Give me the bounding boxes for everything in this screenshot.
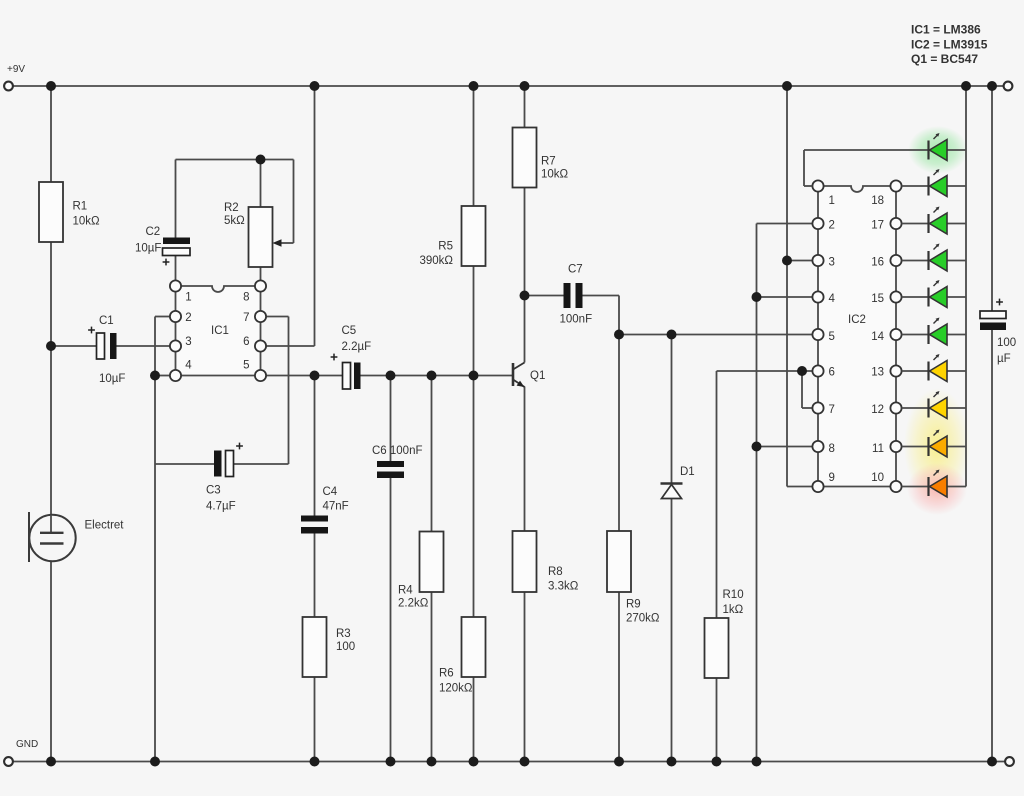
svg-text:C1: C1 bbox=[99, 315, 114, 327]
svg-text:R5: R5 bbox=[438, 241, 453, 253]
svg-text:13: 13 bbox=[871, 367, 884, 379]
svg-text:D1: D1 bbox=[680, 466, 695, 478]
svg-text:10kΩ: 10kΩ bbox=[541, 169, 569, 181]
svg-text:16: 16 bbox=[871, 257, 884, 269]
svg-text:GND: GND bbox=[16, 739, 38, 750]
svg-text:1: 1 bbox=[185, 292, 191, 304]
svg-text:4: 4 bbox=[185, 360, 192, 372]
svg-text:100: 100 bbox=[336, 641, 355, 653]
svg-text:4: 4 bbox=[829, 293, 836, 305]
svg-text:C5: C5 bbox=[342, 325, 357, 337]
svg-text:Q1: Q1 bbox=[530, 370, 545, 382]
svg-text:270kΩ: 270kΩ bbox=[626, 613, 660, 625]
svg-text:3: 3 bbox=[185, 336, 191, 348]
svg-text:5kΩ: 5kΩ bbox=[224, 215, 245, 227]
svg-text:IC2 = LM3915: IC2 = LM3915 bbox=[911, 38, 988, 52]
svg-text:5: 5 bbox=[243, 360, 249, 372]
svg-text:7: 7 bbox=[243, 312, 249, 324]
svg-text:10µF: 10µF bbox=[135, 243, 161, 255]
svg-text:C7: C7 bbox=[568, 264, 583, 276]
svg-text:10: 10 bbox=[871, 472, 884, 484]
svg-text:C3: C3 bbox=[206, 485, 221, 497]
svg-text:5: 5 bbox=[829, 331, 835, 343]
svg-text:R4: R4 bbox=[398, 585, 413, 597]
svg-text:IC2: IC2 bbox=[848, 314, 866, 326]
svg-text:C4: C4 bbox=[323, 486, 338, 498]
svg-text:IC1: IC1 bbox=[211, 325, 229, 337]
svg-text:9: 9 bbox=[829, 472, 835, 484]
svg-text:R9: R9 bbox=[626, 599, 641, 611]
svg-text:1kΩ: 1kΩ bbox=[723, 604, 744, 616]
svg-text:390kΩ: 390kΩ bbox=[419, 255, 453, 267]
svg-text:C2: C2 bbox=[146, 226, 161, 238]
svg-text:R1: R1 bbox=[73, 201, 88, 213]
svg-text:6: 6 bbox=[243, 336, 249, 348]
svg-text:8: 8 bbox=[243, 292, 249, 304]
svg-text:12: 12 bbox=[871, 404, 884, 416]
svg-text:3.3kΩ: 3.3kΩ bbox=[548, 581, 579, 593]
svg-text:120kΩ: 120kΩ bbox=[439, 683, 473, 695]
svg-text:1: 1 bbox=[829, 195, 835, 207]
svg-text:8: 8 bbox=[829, 443, 835, 455]
svg-text:R7: R7 bbox=[541, 156, 556, 168]
svg-text:µF: µF bbox=[997, 353, 1011, 365]
svg-text:17: 17 bbox=[871, 220, 884, 232]
svg-text:10µF: 10µF bbox=[99, 373, 125, 385]
svg-text:R8: R8 bbox=[548, 566, 563, 578]
svg-text:47nF: 47nF bbox=[323, 501, 349, 513]
svg-text:14: 14 bbox=[871, 331, 884, 343]
svg-text:100: 100 bbox=[997, 337, 1016, 349]
svg-text:R10: R10 bbox=[723, 589, 744, 601]
svg-text:Electret: Electret bbox=[85, 520, 125, 532]
svg-text:R2: R2 bbox=[224, 202, 239, 214]
svg-text:C6 100nF: C6 100nF bbox=[372, 445, 423, 457]
svg-text:2: 2 bbox=[829, 220, 835, 232]
svg-text:2.2kΩ: 2.2kΩ bbox=[398, 598, 429, 610]
svg-text:18: 18 bbox=[871, 195, 884, 207]
svg-text:100nF: 100nF bbox=[560, 314, 593, 326]
svg-text:10kΩ: 10kΩ bbox=[73, 216, 101, 228]
svg-text:11: 11 bbox=[872, 443, 884, 455]
svg-text:7: 7 bbox=[829, 404, 835, 416]
svg-text:2.2µF: 2.2µF bbox=[342, 341, 372, 353]
svg-text:6: 6 bbox=[829, 367, 835, 379]
svg-text:IC1 = LM386: IC1 = LM386 bbox=[911, 23, 981, 37]
svg-text:+9V: +9V bbox=[7, 64, 25, 75]
svg-text:15: 15 bbox=[871, 293, 884, 305]
svg-text:Q1 = BC547: Q1 = BC547 bbox=[911, 52, 978, 66]
svg-text:3: 3 bbox=[829, 257, 835, 269]
svg-text:R6: R6 bbox=[439, 668, 454, 680]
svg-text:4.7µF: 4.7µF bbox=[206, 501, 236, 513]
svg-text:2: 2 bbox=[185, 312, 191, 324]
svg-text:R3: R3 bbox=[336, 628, 351, 640]
